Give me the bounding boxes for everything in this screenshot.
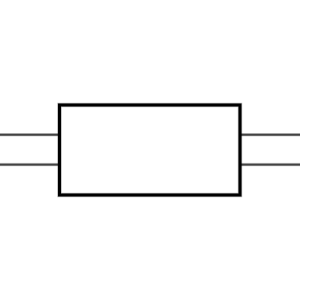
wire: left lower lead (pin 2) [0,163,59,166]
component body U1 (generic four-terminal box) [60,105,241,195]
wire: right upper lead (pin 4) [241,133,300,136]
wire: right lower lead (pin 3) [241,163,300,166]
wire: left upper lead (pin 1) [0,133,59,136]
